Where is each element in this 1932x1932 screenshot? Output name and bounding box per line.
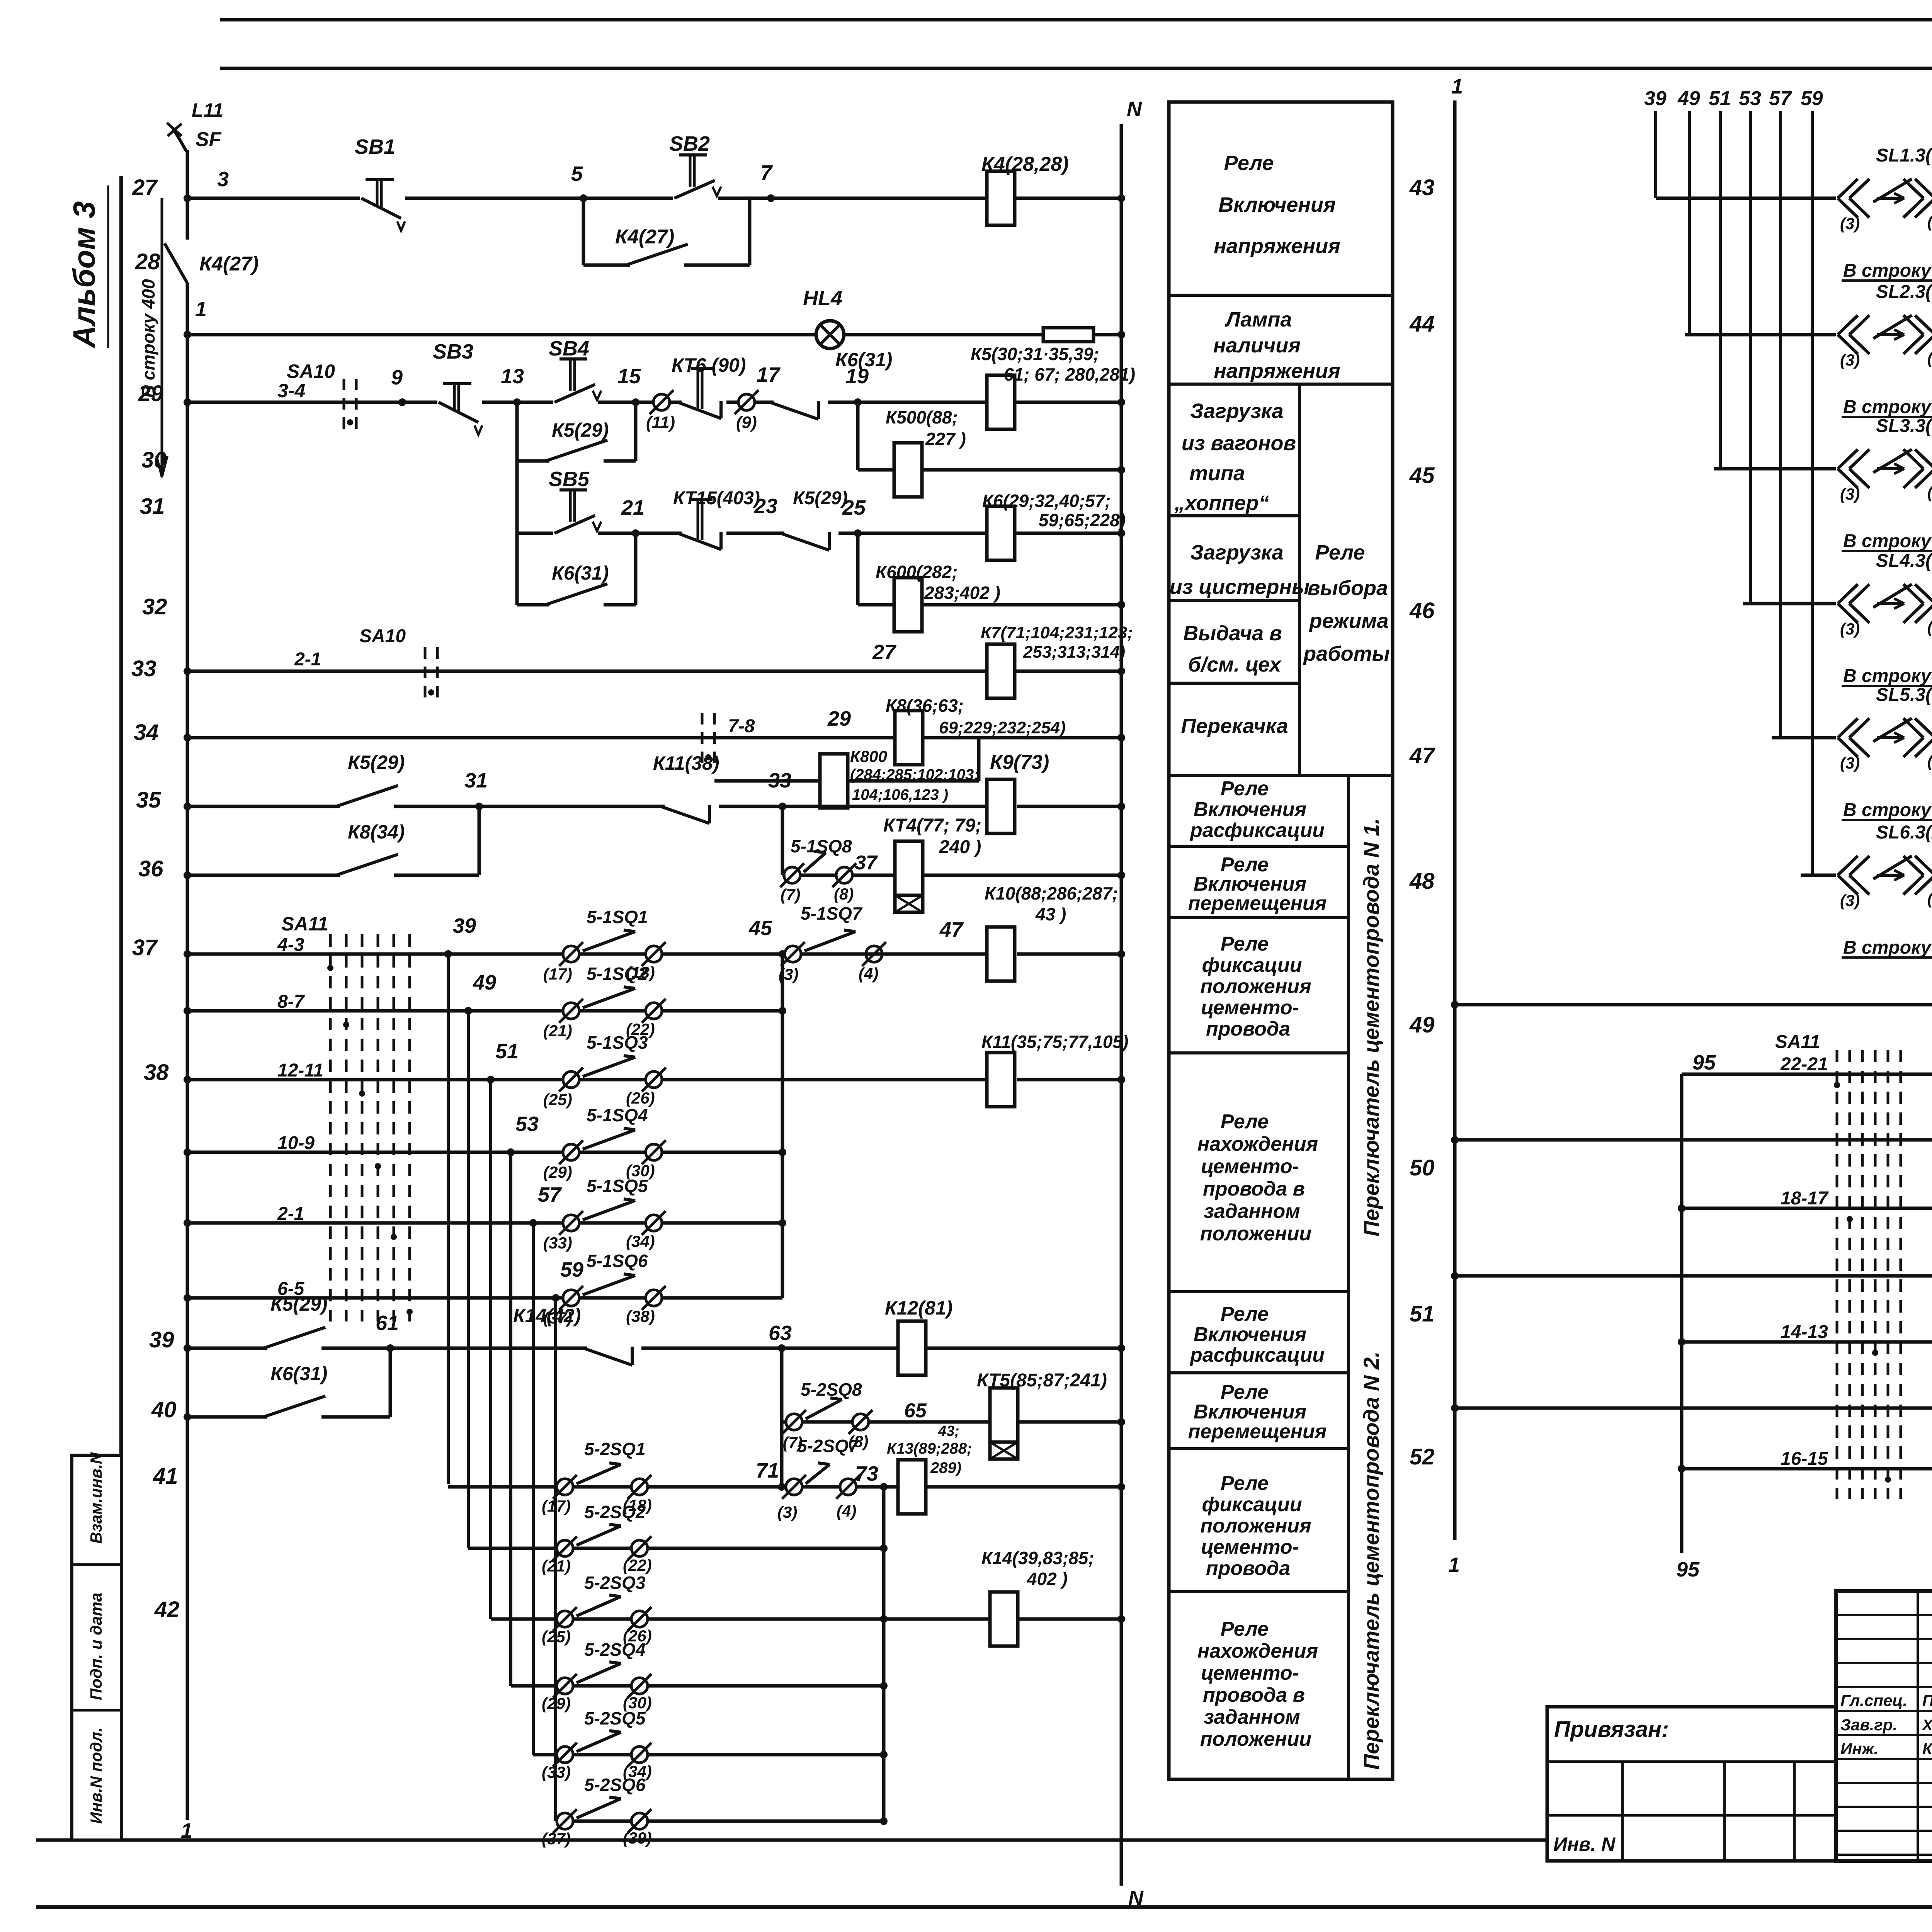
svg-text:49: 49 — [1677, 87, 1700, 110]
svg-text:фиксации: фиксации — [1202, 954, 1302, 976]
button SB4 — [553, 398, 598, 407]
wire — [119, 176, 123, 1840]
wire — [220, 18, 1932, 22]
svg-text:4-3: 4-3 — [277, 935, 304, 955]
svg-text:(3): (3) — [777, 1503, 797, 1521]
svg-text:Выдача в: Выдача в — [1183, 622, 1282, 645]
svg-text:48: 48 — [1409, 869, 1435, 894]
svg-text:положения: положения — [1200, 975, 1311, 998]
node rail N left — [1120, 124, 1123, 1886]
contact SL3.3(13) — [1836, 464, 1932, 473]
svg-text:253;313;314): 253;313;314) — [1023, 643, 1125, 662]
svg-text:59: 59 — [1801, 87, 1823, 110]
coil K9 — [987, 779, 1015, 833]
svg-text:5-2SQ2: 5-2SQ2 — [584, 1502, 646, 1522]
svg-text:В строку 386: В строку 386 — [1843, 666, 1932, 686]
lamp HL4 — [816, 321, 844, 349]
wire k800-branch — [977, 738, 981, 781]
svg-text:(38): (38) — [626, 1307, 655, 1325]
svg-text:52: 52 — [1410, 1444, 1435, 1469]
coil K12 — [898, 1321, 926, 1375]
svg-text:К14(42): К14(42) — [513, 1305, 581, 1327]
svg-text:провода в: провода в — [1203, 1178, 1305, 1200]
svg-text:8-7: 8-7 — [277, 992, 305, 1012]
svg-text:нахождения: нахождения — [1197, 1133, 1318, 1155]
svg-text:22-21: 22-21 — [1780, 1054, 1828, 1075]
switch SA10 — [343, 379, 345, 429]
svg-text:SF: SF — [196, 128, 222, 151]
svg-text:SL3.3(13): SL3.3(13) — [1876, 416, 1932, 436]
svg-text:33: 33 — [768, 769, 791, 792]
contact 5-1SQ7 — [785, 946, 801, 962]
svg-text:(21): (21) — [543, 1022, 572, 1040]
node function-table — [1169, 102, 1393, 1779]
svg-text:Альбом 3: Альбом 3 — [67, 201, 101, 349]
svg-text:К5(30;31·35,39;: К5(30;31·35,39; — [971, 344, 1099, 364]
wire lamp-line — [187, 333, 817, 337]
contact K4(27) rail — [165, 243, 187, 283]
svg-text:63: 63 — [769, 1321, 792, 1345]
svg-text:69;229;232;254): 69;229;232;254) — [939, 718, 1066, 737]
wire rung-5-2SQ5 — [533, 1753, 884, 1757]
svg-text:типа: типа — [1189, 462, 1245, 485]
coil K11 — [987, 1053, 1015, 1107]
coil K600 — [894, 578, 922, 632]
svg-text:режима: режима — [1308, 609, 1388, 633]
contact K11(38) — [665, 802, 719, 811]
svg-text:5-2SQ5: 5-2SQ5 — [584, 1708, 646, 1728]
wire rung-5-2SQ3 — [491, 1617, 990, 1621]
svg-text:Взам.инв.N: Взам.инв.N — [87, 1452, 105, 1544]
wire rung-SL4.3(16) — [1743, 602, 1932, 605]
node arrow to-line-400 — [161, 198, 163, 475]
wire rung41 — [448, 1485, 898, 1489]
svg-text:К600(282;: К600(282; — [876, 562, 957, 582]
svg-text:32: 32 — [142, 594, 167, 619]
svg-text:Инв. N: Инв. N — [1553, 1833, 1616, 1855]
svg-text:2-1: 2-1 — [277, 1204, 304, 1224]
svg-text:К5(29): К5(29) — [793, 488, 848, 509]
svg-text:SA11: SA11 — [1775, 1032, 1820, 1052]
switch SA11-right dashes — [1836, 1050, 1838, 1499]
svg-text:Кадыкова: Кадыкова — [1922, 1740, 1932, 1758]
svg-text:3: 3 — [217, 168, 229, 191]
svg-text:К8(34): К8(34) — [348, 821, 405, 843]
svg-text:16-15: 16-15 — [1781, 1449, 1828, 1469]
svg-text:1: 1 — [195, 298, 207, 321]
wire rung-5-2SQ2 — [468, 1547, 884, 1550]
svg-text:1: 1 — [1448, 1553, 1460, 1577]
svg-text:Реле: Реле — [1221, 1472, 1269, 1495]
svg-text:5-1SQ4: 5-1SQ4 — [587, 1105, 648, 1125]
svg-text:цементо-: цементо- — [1201, 1662, 1299, 1684]
contact 5-1SQ1 — [563, 946, 579, 962]
wire rung-SL5.3(19) — [1772, 736, 1932, 740]
coil K8 — [895, 711, 923, 765]
svg-text:43: 43 — [1409, 175, 1435, 200]
wire rung-5-2SQ6 — [556, 1820, 884, 1823]
contact SL4.3(16) — [1836, 599, 1932, 608]
svg-text:наличия: наличия — [1213, 334, 1301, 357]
svg-text:(29): (29) — [542, 1694, 571, 1713]
coil K5 — [987, 375, 1015, 429]
svg-text:SB2: SB2 — [669, 132, 710, 155]
svg-text:цементо-: цементо- — [1201, 997, 1299, 1019]
svg-text:К6(31): К6(31) — [552, 562, 609, 584]
contact aux (11) — [653, 394, 670, 410]
svg-text:36: 36 — [138, 856, 163, 881]
svg-text:(34): (34) — [626, 1232, 655, 1250]
svg-text:SL6.3(22): SL6.3(22) — [1876, 822, 1932, 843]
node 53 — [507, 1148, 515, 1156]
node 31 — [475, 803, 483, 810]
svg-text:Лампа: Лампа — [1225, 308, 1292, 331]
svg-text:37: 37 — [855, 852, 878, 874]
svg-text:положении: положении — [1200, 1223, 1311, 1245]
svg-text:перемещения: перемещения — [1188, 892, 1327, 915]
contact K6(31) — [267, 1412, 321, 1422]
svg-text:Включения: Включения — [1218, 193, 1336, 216]
svg-text:(33): (33) — [542, 1763, 571, 1781]
wire rung29 — [187, 401, 988, 404]
svg-text:5-2SQ1: 5-2SQ1 — [584, 1439, 646, 1459]
node 45 — [779, 950, 786, 958]
wire bus45 — [781, 954, 784, 1298]
svg-text:(8): (8) — [834, 885, 854, 903]
svg-text:HL4: HL4 — [803, 287, 842, 310]
node rail L — [186, 150, 189, 240]
svg-text:227 ): 227 ) — [925, 429, 966, 449]
switch SA10 7-8 — [701, 713, 704, 763]
svg-text:45: 45 — [1409, 463, 1435, 488]
contact 5-1SQ3 — [563, 1071, 579, 1088]
wire rung-6-5 — [187, 1296, 782, 1300]
switch SA10 2-1 — [424, 647, 427, 697]
svg-text:К12(81): К12(81) — [885, 1297, 952, 1319]
svg-text:К4(28,28): К4(28,28) — [981, 153, 1069, 175]
wire rung-97 — [1455, 1138, 1932, 1142]
svg-text:Загрузка: Загрузка — [1190, 400, 1283, 423]
node binding-box — [1547, 1707, 1836, 1861]
svg-text:43;: 43; — [938, 1423, 959, 1439]
contact KT6 — [682, 398, 726, 407]
svg-text:К13(89;288;: К13(89;288; — [887, 1440, 972, 1457]
wire rung37-coil — [866, 952, 988, 956]
svg-text:КТ4(77; 79;: КТ4(77; 79; — [883, 815, 981, 836]
contact KT15 — [682, 529, 726, 538]
svg-text:Включения: Включения — [1194, 1323, 1306, 1346]
contact K5(29) — [340, 802, 394, 811]
svg-text:104;106,123 ): 104;106,123 ) — [852, 786, 948, 803]
svg-text:Переключатель цементопровода N: Переключатель цементопровода N 1. — [1359, 818, 1383, 1236]
svg-text:5-1SQ1: 5-1SQ1 — [587, 907, 648, 927]
svg-text:(4): (4) — [859, 964, 878, 983]
wire rung36 — [187, 874, 479, 877]
svg-text:5-2SQ3: 5-2SQ3 — [584, 1573, 646, 1593]
svg-text:21: 21 — [621, 496, 645, 519]
svg-text:расфиксации: расфиксации — [1189, 819, 1325, 842]
svg-text:(7): (7) — [781, 886, 800, 904]
svg-text:27: 27 — [132, 175, 158, 200]
wire rung-93 — [1455, 1003, 1932, 1007]
node 25 — [854, 529, 862, 537]
svg-text:из вагонов: из вагонов — [1182, 432, 1296, 455]
svg-text:SL1.3(7): SL1.3(7) — [1876, 145, 1932, 166]
wire rung31 — [515, 402, 519, 533]
svg-text:(5): (5) — [1927, 889, 1932, 908]
svg-text:К4(27): К4(27) — [199, 253, 259, 275]
svg-text:расфиксации: расфиксации — [1189, 1344, 1325, 1366]
svg-text:Потехин: Потехин — [1922, 1691, 1932, 1709]
svg-text:9: 9 — [391, 366, 403, 389]
wire rung35 — [187, 805, 989, 808]
contact 5-2SQ3 — [557, 1611, 573, 1627]
node 19 — [854, 398, 862, 406]
wire node-columns — [447, 954, 450, 1484]
node 61 — [386, 1344, 394, 1352]
svg-text:10-9: 10-9 — [277, 1133, 315, 1153]
wire — [36, 1905, 1932, 1909]
svg-text:SB1: SB1 — [355, 135, 395, 158]
wire bus-bottom — [882, 1487, 886, 1821]
svg-text:Включения: Включения — [1194, 798, 1306, 821]
svg-text:В строку 387: В строку 387 — [1843, 800, 1932, 820]
svg-text:(5): (5) — [1927, 752, 1932, 770]
svg-text:Перекачка: Перекачка — [1181, 714, 1288, 738]
svg-text:К14(39,83;85;: К14(39,83;85; — [981, 1548, 1094, 1568]
svg-text:5-2SQ7: 5-2SQ7 — [797, 1436, 859, 1456]
svg-text:SA11: SA11 — [281, 913, 328, 935]
svg-text:Реле: Реле — [1221, 1381, 1269, 1403]
wire rung-99 — [1455, 1274, 1932, 1278]
svg-text:N: N — [1127, 97, 1142, 121]
svg-text:31: 31 — [140, 494, 165, 519]
node 59 — [552, 1294, 560, 1302]
svg-text:(22): (22) — [623, 1556, 652, 1574]
contact 5-2SQ6 — [557, 1813, 573, 1829]
contact SL1.3(7) — [1836, 194, 1932, 203]
svg-text:71: 71 — [756, 1459, 779, 1482]
svg-text:289): 289) — [930, 1459, 961, 1476]
svg-text:К5(29): К5(29) — [270, 1293, 327, 1315]
svg-text:Инж.: Инж. — [1840, 1740, 1878, 1758]
svg-text:31: 31 — [464, 769, 488, 792]
wire k500-branch — [856, 402, 860, 470]
contact SL2.3(10) — [1836, 330, 1932, 339]
svg-text:(37): (37) — [542, 1830, 571, 1848]
wire rung-SL3.3(13) — [1714, 467, 1932, 471]
wire rung-SL1.3(7) — [1656, 197, 1932, 200]
wire rung-22-21 — [1682, 1073, 1932, 1076]
resistor R — [1043, 328, 1094, 342]
contact aux (9) — [738, 394, 755, 410]
svg-text:1: 1 — [181, 1819, 192, 1842]
wire rung-10-9 — [187, 1151, 782, 1154]
svg-text:5-2SQ8: 5-2SQ8 — [801, 1379, 862, 1400]
svg-text:К11(38): К11(38) — [653, 752, 719, 774]
svg-text:283;402 ): 283;402 ) — [924, 583, 1000, 603]
contact 5-2SQ8 — [786, 1414, 802, 1430]
contact 5-2SQ7 — [786, 1479, 802, 1495]
contact K14(42) — [587, 1344, 641, 1353]
svg-text:47: 47 — [1409, 743, 1435, 768]
svg-text:(3): (3) — [1840, 485, 1860, 503]
wire rung27 — [187, 197, 987, 200]
node 21 — [632, 529, 639, 537]
svg-text:5-1SQ7: 5-1SQ7 — [801, 903, 863, 923]
wire rung40 — [187, 1415, 390, 1419]
svg-text:Реле: Реле — [1221, 1303, 1269, 1325]
node 33 — [779, 803, 786, 810]
svg-text:В строку 384: В строку 384 — [1843, 397, 1932, 417]
svg-text:В строку 383: В строку 383 — [1843, 260, 1932, 281]
svg-text:5-1SQ8: 5-1SQ8 — [791, 836, 852, 856]
coil K4 — [987, 171, 1015, 225]
svg-text:44: 44 — [1409, 311, 1435, 337]
svg-text:5-2SQ6: 5-2SQ6 — [584, 1775, 646, 1795]
wire drop-lines — [1654, 111, 1657, 198]
node 7 — [767, 194, 775, 202]
svg-text:Инв.N подл.: Инв.N подл. — [87, 1727, 105, 1824]
svg-text:заданном: заданном — [1204, 1200, 1300, 1223]
svg-text:23: 23 — [754, 495, 777, 518]
contact 5-2SQ4 — [557, 1678, 573, 1694]
contact 5-1SQ8 — [784, 867, 800, 883]
svg-text:В строку 385: В строку 385 — [1843, 531, 1932, 551]
svg-text:фиксации: фиксации — [1202, 1493, 1302, 1516]
wire rung-2-1 — [187, 1221, 782, 1225]
svg-text:(26): (26) — [626, 1089, 655, 1107]
coil K7 — [987, 644, 1015, 698]
svg-text:К11(35;75;77,105): К11(35;75;77,105) — [981, 1032, 1128, 1052]
wire — [220, 67, 1932, 70]
svg-text:(5): (5) — [1927, 483, 1932, 501]
svg-text:(3): (3) — [1840, 754, 1860, 772]
svg-text:К6(31): К6(31) — [270, 1363, 327, 1384]
svg-text:51: 51 — [1410, 1301, 1435, 1327]
svg-text:(5): (5) — [1927, 213, 1932, 231]
button SB1 — [360, 194, 405, 203]
svg-text:49: 49 — [473, 971, 496, 994]
svg-text:Привязан:: Привязан: — [1554, 1717, 1669, 1742]
contact 5-2SQ2 — [557, 1540, 573, 1556]
svg-text:46: 46 — [1409, 598, 1435, 623]
svg-text:(5): (5) — [1927, 349, 1932, 367]
svg-text:57: 57 — [1769, 87, 1792, 110]
svg-text:работы: работы — [1303, 642, 1390, 665]
svg-text:Зав.гр.: Зав.гр. — [1840, 1716, 1897, 1734]
wire bypass27 — [582, 198, 585, 265]
svg-text:(39): (39) — [623, 1829, 652, 1847]
node title-block — [1836, 1591, 1932, 1861]
svg-text:К5(29): К5(29) — [348, 752, 405, 773]
node 9 — [398, 398, 406, 406]
svg-text:50: 50 — [1410, 1155, 1435, 1180]
svg-text:К8(36;63;: К8(36;63; — [886, 696, 964, 716]
svg-text:5-1SQ6: 5-1SQ6 — [587, 1251, 648, 1271]
svg-text:нахождения: нахождения — [1197, 1640, 1318, 1662]
coil K14 — [990, 1592, 1018, 1646]
svg-text:39: 39 — [453, 914, 476, 937]
svg-text:45: 45 — [748, 917, 772, 940]
node 51 — [487, 1076, 495, 1083]
svg-text:13: 13 — [501, 365, 524, 388]
svg-text:(3): (3) — [779, 965, 798, 983]
svg-text:SA10: SA10 — [359, 626, 406, 646]
svg-text:напряжения: напряжения — [1214, 359, 1340, 383]
svg-text:41: 41 — [153, 1464, 178, 1489]
contact K4(27) — [630, 260, 684, 270]
svg-text:53: 53 — [1739, 87, 1761, 110]
svg-text:К5(29): К5(29) — [552, 419, 609, 441]
contact 5-1SQ2 — [563, 1003, 579, 1019]
node 63 — [778, 1344, 786, 1352]
svg-text:„хоппер“: „хоппер“ — [1174, 492, 1269, 515]
svg-text:37: 37 — [132, 935, 158, 960]
node 3 — [184, 194, 191, 202]
contact K5(29) — [549, 456, 604, 466]
svg-text:43 ): 43 ) — [1035, 904, 1066, 924]
svg-text:SB3: SB3 — [433, 340, 473, 363]
node 15 — [632, 398, 639, 406]
svg-text:27: 27 — [872, 641, 897, 664]
svg-text:5: 5 — [571, 162, 583, 185]
coil K10 — [987, 927, 1015, 981]
svg-text:цементо-: цементо- — [1201, 1155, 1299, 1178]
svg-text:SB4: SB4 — [549, 337, 589, 360]
svg-text:Включения: Включения — [1194, 1401, 1306, 1423]
svg-text:402 ): 402 ) — [1027, 1569, 1068, 1589]
coil K500 — [894, 443, 922, 497]
node 71 — [778, 1483, 786, 1491]
svg-text:5-2SQ4: 5-2SQ4 — [584, 1639, 646, 1660]
node 39 — [444, 950, 452, 958]
svg-text:5-1SQ3: 5-1SQ3 — [587, 1032, 648, 1053]
wire rung39 — [187, 1347, 898, 1350]
svg-text:Реле: Реле — [1221, 1618, 1269, 1640]
svg-text:заданном: заданном — [1204, 1706, 1300, 1728]
svg-text:провода: провода — [1206, 1557, 1290, 1580]
wire rung38-coil — [1017, 1078, 1121, 1082]
svg-text:SL2.3(10): SL2.3(10) — [1876, 282, 1932, 302]
svg-text:КТ15(403): КТ15(403) — [673, 488, 760, 509]
svg-text:перемещения: перемещения — [1188, 1420, 1327, 1443]
svg-text:42: 42 — [154, 1597, 180, 1622]
node 57 — [529, 1219, 537, 1227]
svg-text:К10(88;286;287;: К10(88;286;287; — [985, 883, 1118, 903]
svg-text:47: 47 — [939, 918, 964, 941]
contact K6(31) — [774, 398, 828, 407]
button SB3 — [437, 398, 482, 407]
svg-text:38: 38 — [144, 1060, 169, 1085]
wire rung-8-7 — [187, 1009, 782, 1013]
svg-text:39: 39 — [1644, 87, 1667, 110]
svg-text:51: 51 — [1709, 87, 1731, 110]
contact 5-1SQ5 — [563, 1215, 579, 1231]
contact SL5.3(19) — [1836, 733, 1932, 742]
svg-text:39: 39 — [149, 1327, 174, 1352]
contact SL6.3(22) — [1836, 871, 1932, 880]
svg-text:SL4.3(16): SL4.3(16) — [1876, 551, 1932, 571]
svg-text:(4): (4) — [837, 1502, 856, 1520]
svg-text:SA10: SA10 — [287, 361, 335, 382]
wire bypass32 — [515, 533, 519, 605]
svg-text:L11: L11 — [192, 99, 223, 121]
svg-text:5-1SQ2: 5-1SQ2 — [587, 964, 648, 984]
svg-text:(25): (25) — [542, 1628, 571, 1646]
svg-text:(29): (29) — [543, 1163, 572, 1181]
svg-text:Гл.спец.: Гл.спец. — [1840, 1691, 1907, 1709]
